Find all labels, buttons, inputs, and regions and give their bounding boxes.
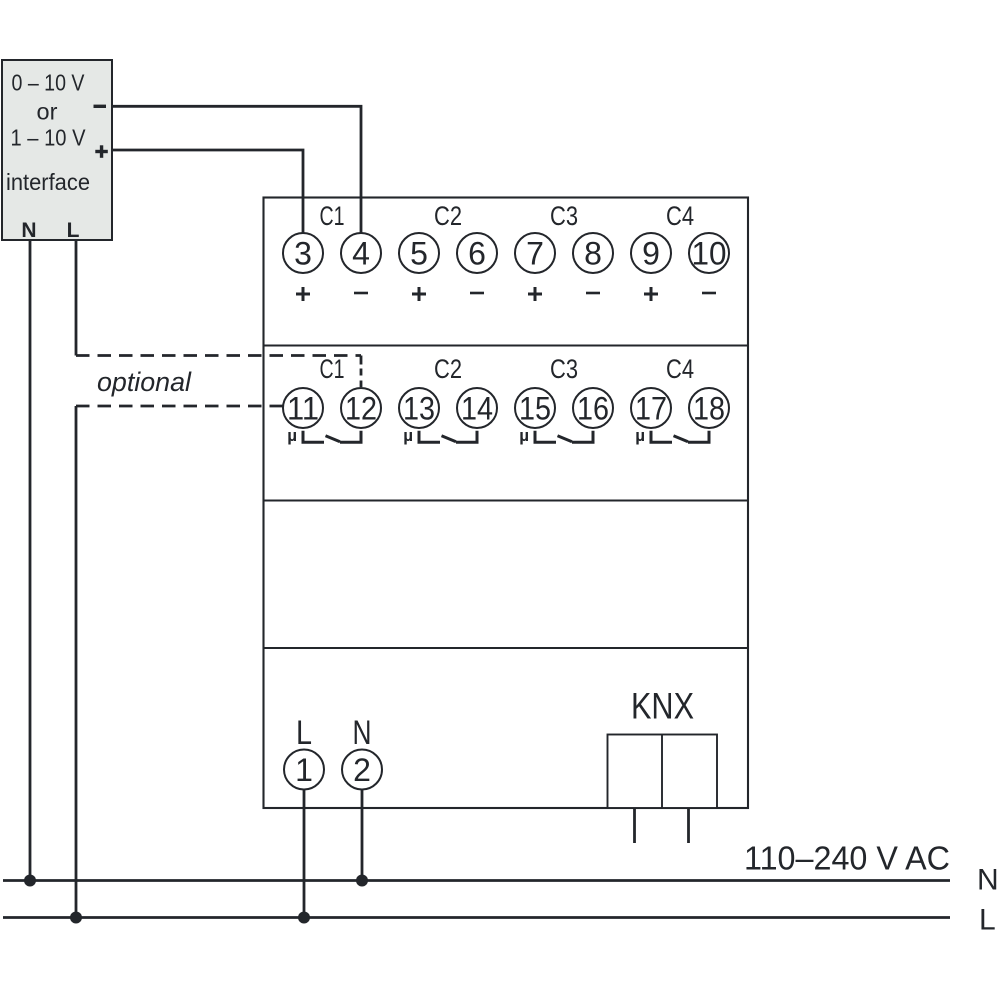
svg-text:1: 1 <box>295 752 313 788</box>
plus mark under terminal 7 <box>528 287 542 301</box>
svg-text:L: L <box>979 904 996 937</box>
svg-text:4: 4 <box>352 236 370 272</box>
wire: interface N down to N bus <box>29 240 32 881</box>
wire: interface minus output to terminal 4 <box>112 106 361 233</box>
svg-text:N: N <box>21 219 36 242</box>
svg-text:7: 7 <box>526 236 544 272</box>
terminal 5 <box>399 233 439 273</box>
svg-text:13: 13 <box>403 391 435 427</box>
svg-text:C4: C4 <box>666 354 694 384</box>
svg-text:µ: µ <box>519 426 529 445</box>
junction: terminal 2 on N bus <box>356 875 368 887</box>
svg-text:6: 6 <box>468 236 486 272</box>
plus mark under terminal 9 <box>644 287 658 301</box>
svg-text:KNX: KNX <box>631 686 694 727</box>
dashed optional wire to terminal 11 <box>76 405 284 408</box>
terminal 2 <box>342 750 382 790</box>
relay contact C3 <box>535 431 593 442</box>
svg-text:17: 17 <box>635 391 667 427</box>
svg-text:or: or <box>37 99 58 125</box>
svg-text:14: 14 <box>461 391 493 427</box>
terminal 18 <box>689 388 729 428</box>
terminal 6 <box>457 233 497 273</box>
terminal 16 <box>573 388 613 428</box>
svg-text:12: 12 <box>345 391 377 427</box>
relay contact C2 <box>419 431 477 442</box>
terminal 9 <box>631 233 671 273</box>
minus mark under terminal 6 <box>470 292 484 295</box>
device outline <box>264 198 749 809</box>
terminal 11 <box>283 388 323 428</box>
junction: L drop on L bus <box>70 912 82 924</box>
KNX bus connector block <box>608 735 718 809</box>
svg-text:15: 15 <box>519 391 551 427</box>
svg-text:3: 3 <box>294 236 312 272</box>
svg-text:18: 18 <box>693 391 725 427</box>
terminal 1 <box>284 750 324 790</box>
KNX pin 1 <box>633 808 636 843</box>
plus mark under terminal 5 <box>412 287 426 301</box>
dashed optional wire to terminal 12 <box>76 354 361 357</box>
svg-text:0 – 10 V: 0 – 10 V <box>12 70 85 96</box>
relay contact C1 <box>303 431 361 442</box>
svg-text:N: N <box>977 864 999 897</box>
plus mark under terminal 3 <box>296 287 310 301</box>
L bus line <box>3 916 950 919</box>
svg-text:L: L <box>296 714 312 752</box>
terminal 14 <box>457 388 497 428</box>
minus polarity mark on interface box <box>94 105 107 108</box>
svg-text:C4: C4 <box>666 201 694 231</box>
svg-text:N: N <box>353 714 372 752</box>
svg-text:µ: µ <box>287 426 297 445</box>
svg-text:C2: C2 <box>434 201 462 231</box>
svg-text:optional: optional <box>97 367 192 397</box>
svg-text:µ: µ <box>403 426 413 445</box>
svg-text:10: 10 <box>692 236 727 272</box>
minus mark under terminal 8 <box>586 292 600 295</box>
svg-text:5: 5 <box>410 236 428 272</box>
svg-text:1 – 10 V: 1 – 10 V <box>11 125 86 151</box>
N bus line <box>3 879 950 882</box>
svg-text:C1: C1 <box>320 354 345 384</box>
terminal 13 <box>399 388 439 428</box>
terminal 3 <box>283 233 323 273</box>
junction: interface N on N bus <box>24 875 36 887</box>
device section divider 2 <box>264 499 749 501</box>
plus polarity mark on interface box <box>95 145 108 158</box>
device section divider 3 <box>264 647 749 649</box>
wire: interface L down to optional dashed branch <box>75 240 78 356</box>
junction: terminal 1 on L bus <box>298 912 310 924</box>
svg-text:C1: C1 <box>320 201 345 231</box>
terminal 12 <box>341 388 381 428</box>
svg-text:interface: interface <box>6 169 90 195</box>
svg-text:L: L <box>67 219 80 242</box>
terminal 17 <box>631 388 671 428</box>
terminal 15 <box>515 388 555 428</box>
svg-text:16: 16 <box>577 391 609 427</box>
device section divider 1 <box>264 344 749 346</box>
wire: terminal 2 to N bus <box>361 790 364 881</box>
terminal 7 <box>515 233 555 273</box>
terminal 8 <box>573 233 613 273</box>
wire: terminal 1 to L bus <box>303 790 306 918</box>
terminal 10 <box>689 233 729 273</box>
wire: L drop from optional branch to L bus <box>75 406 78 918</box>
svg-text:8: 8 <box>584 236 602 272</box>
svg-text:C3: C3 <box>550 201 578 231</box>
svg-text:11: 11 <box>287 391 319 427</box>
0-10V / 1-10V interface box <box>2 60 112 240</box>
svg-text:µ: µ <box>635 426 645 445</box>
relay contact C4 <box>651 431 709 442</box>
svg-text:C2: C2 <box>434 354 462 384</box>
svg-text:2: 2 <box>353 752 371 788</box>
terminal 4 <box>341 233 381 273</box>
svg-text:C3: C3 <box>550 354 578 384</box>
minus mark under terminal 10 <box>702 292 716 295</box>
svg-text:110–240 V AC: 110–240 V AC <box>744 841 950 878</box>
svg-text:9: 9 <box>642 236 660 272</box>
KNX pin 2 <box>687 808 690 843</box>
wire: interface plus output to terminal 3 <box>112 150 303 233</box>
minus mark under terminal 4 <box>354 292 368 295</box>
